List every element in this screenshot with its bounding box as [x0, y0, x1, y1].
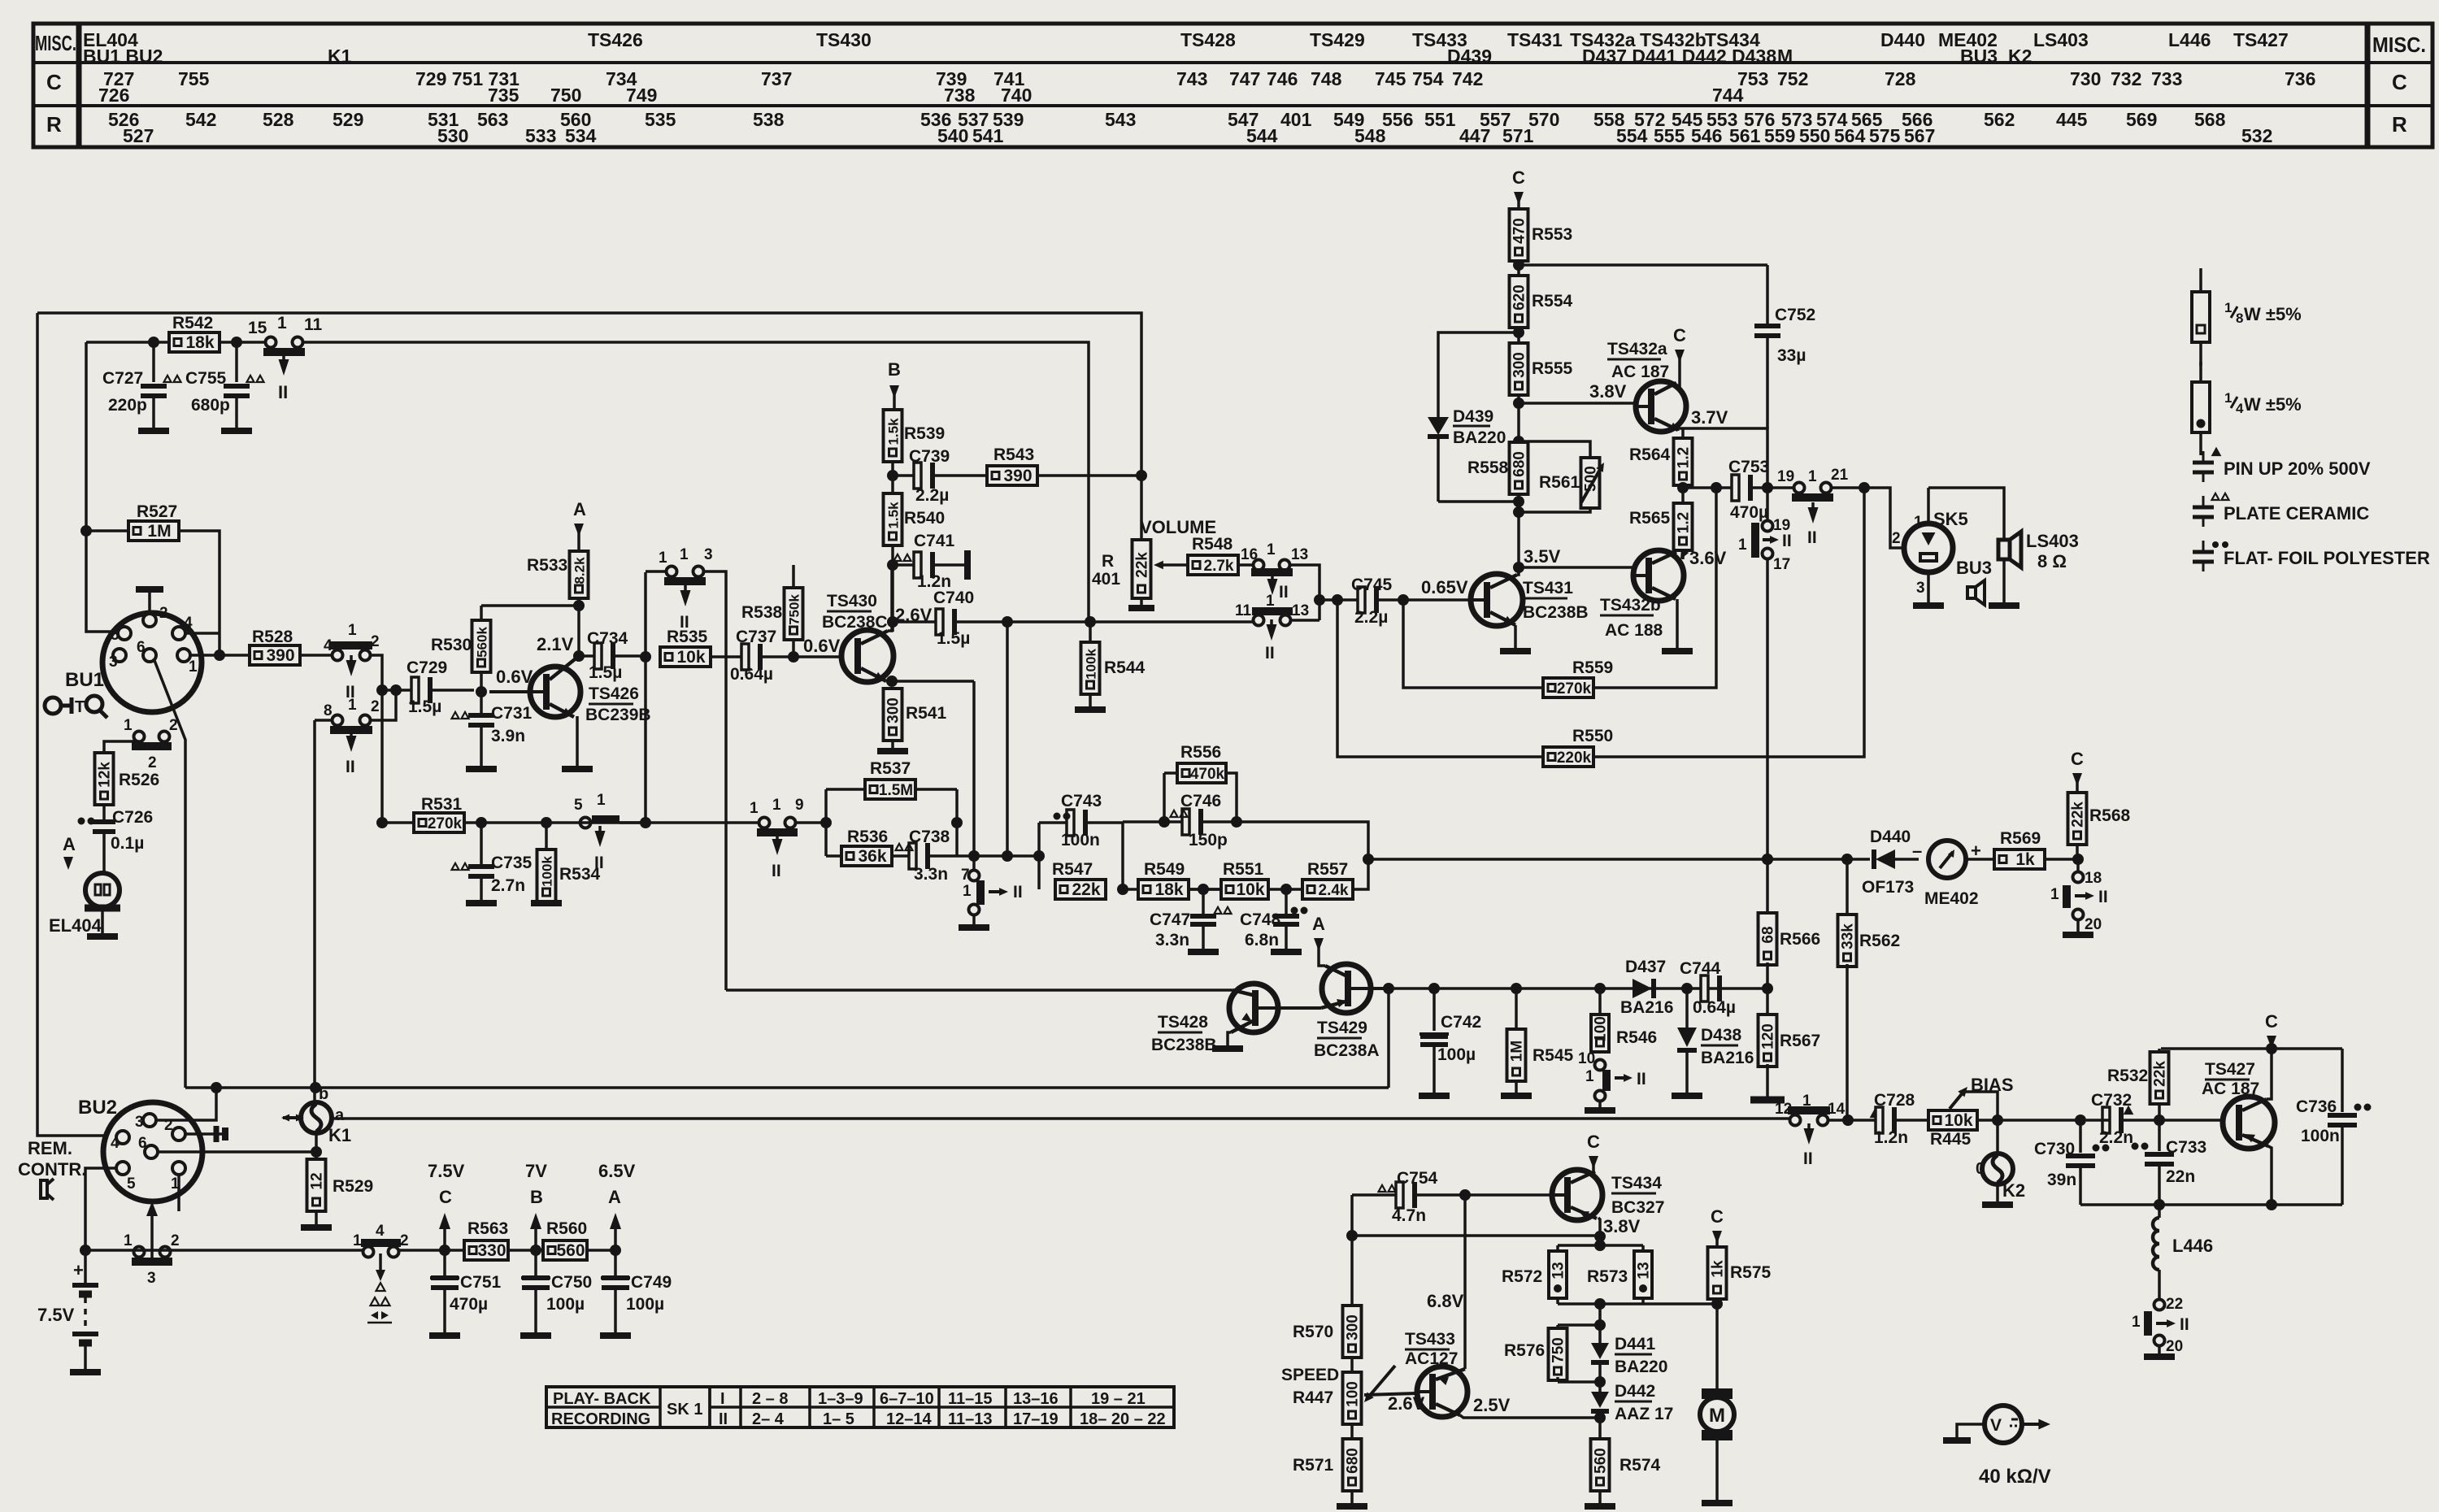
svg-text:R532: R532	[2107, 1067, 2148, 1085]
svg-text:0.1µ: 0.1µ	[111, 834, 144, 853]
capacitor C743 100n loop	[1039, 821, 1068, 824]
diode D439 BA220	[1428, 417, 1449, 435]
svg-text:T: T	[75, 698, 85, 716]
svg-text:527: 527	[123, 125, 154, 146]
svg-text:R573: R573	[1587, 1267, 1628, 1286]
switch 10-1-6 vertical II	[1595, 1060, 1606, 1071]
wire y1057 D440 branch	[1841, 854, 1853, 865]
svg-text:18– 20 – 22: 18– 20 – 22	[1080, 1410, 1166, 1428]
svg-text:33k: 33k	[1840, 923, 1857, 949]
svg-text:542: 542	[185, 109, 216, 130]
wire switch to R526	[104, 741, 139, 754]
svg-text:TS426: TS426	[589, 684, 639, 703]
diode D440 OF173	[1847, 858, 1870, 861]
svg-text:20: 20	[2166, 1338, 2183, 1355]
svg-text:470: 470	[1511, 218, 1528, 244]
svg-text:R544: R544	[1104, 658, 1146, 677]
svg-text:556: 556	[1382, 109, 1413, 130]
capacitor C741 1.2n	[893, 563, 915, 567]
svg-text:3.3n: 3.3n	[914, 865, 948, 884]
svg-text:R538: R538	[741, 603, 783, 622]
svg-text:8: 8	[324, 702, 333, 719]
svg-text:3: 3	[704, 546, 713, 563]
svg-text:746: 746	[1267, 68, 1298, 89]
svg-text:300: 300	[1511, 352, 1528, 378]
capacitor C750 100u	[522, 1275, 550, 1280]
svg-text:2.2µ: 2.2µ	[1354, 608, 1388, 627]
svg-text:TS428: TS428	[1180, 29, 1236, 50]
icon plug rem contr	[41, 1180, 47, 1198]
svg-text:564: 564	[1834, 125, 1866, 146]
svg-text:TS434: TS434	[1611, 1174, 1662, 1193]
wire bus y1538 right part with R563 R560	[398, 1249, 464, 1252]
capacitor C753 470u	[1732, 475, 1739, 501]
svg-text:BA220: BA220	[1453, 428, 1506, 447]
svg-text:R564: R564	[1629, 445, 1671, 464]
svg-text:C733: C733	[2166, 1138, 2206, 1157]
svg-text:1.2: 1.2	[1676, 512, 1693, 533]
resistor R532 22k	[2158, 1049, 2161, 1054]
svg-text:C742: C742	[1441, 1013, 1481, 1032]
wire TS429 base to node x1708	[1351, 987, 1389, 990]
svg-text:II: II	[1782, 532, 1792, 550]
svg-text:2.6V: 2.6V	[1388, 1393, 1425, 1414]
resistor R559 270k loop	[1403, 600, 1543, 688]
svg-text:726: 726	[98, 85, 129, 106]
svg-text:1.5k: 1.5k	[886, 502, 902, 529]
svg-text:1–3–9: 1–3–9	[818, 1390, 863, 1408]
svg-text:11: 11	[1235, 602, 1252, 619]
resistor R557 2.4k	[1302, 880, 1353, 899]
svg-text:A: A	[1312, 914, 1325, 934]
svg-text:743: 743	[1176, 68, 1207, 89]
svg-text:R: R	[46, 112, 62, 137]
svg-text:C735: C735	[491, 854, 533, 872]
svg-text:TS428: TS428	[1158, 1013, 1208, 1032]
svg-text:R569: R569	[2000, 829, 2041, 848]
svg-text:1: 1	[963, 883, 972, 900]
capacitor C739 2.2u	[893, 474, 915, 477]
relay K2	[1996, 1120, 1999, 1154]
svg-text:C731: C731	[491, 704, 533, 723]
resistor R548 2.7k	[1188, 555, 1238, 575]
transistor TS432a AC187	[1636, 381, 1686, 432]
resistor R447 100 SPEED	[1343, 1372, 1362, 1424]
svg-text:13: 13	[1292, 602, 1309, 619]
potentiometer R561 500	[1519, 441, 1590, 458]
svg-text:R567: R567	[1780, 1032, 1820, 1050]
svg-text:8: 8	[2236, 311, 2243, 326]
resistor R528 390	[190, 654, 250, 657]
resistor R556 470k loop	[1163, 773, 1166, 822]
svg-text:0.64µ: 0.64µ	[730, 665, 773, 684]
svg-text:K2: K2	[2008, 46, 2032, 67]
wire x1663 down through R570 chain	[1350, 1195, 1354, 1305]
svg-text:R556: R556	[1180, 743, 1221, 762]
svg-text:1: 1	[1914, 514, 1923, 531]
svg-text:620: 620	[1511, 285, 1528, 311]
svg-text:3.8V: 3.8V	[1603, 1216, 1641, 1236]
svg-text:C746: C746	[1180, 792, 1221, 810]
svg-text:2: 2	[371, 698, 380, 715]
resistor R549 18k	[1123, 888, 1139, 891]
svg-text:3: 3	[1916, 580, 1925, 597]
svg-text:738: 738	[944, 85, 976, 106]
wire R533 node to R530 top	[481, 604, 579, 607]
svg-text:BC327: BC327	[1611, 1198, 1664, 1217]
svg-text:2.7n: 2.7n	[491, 876, 525, 895]
svg-text:R554: R554	[1532, 292, 1573, 311]
resistor R574 560	[1598, 1418, 1602, 1439]
svg-text:BU3: BU3	[1960, 46, 1998, 67]
svg-text:B: B	[530, 1187, 543, 1207]
svg-text:561: 561	[1729, 125, 1761, 146]
svg-text:3: 3	[135, 1114, 144, 1131]
svg-text:749: 749	[626, 85, 657, 106]
legend resistor 1/4W	[2199, 362, 2202, 382]
svg-text:13: 13	[1636, 1262, 1653, 1279]
svg-text:C755: C755	[185, 369, 227, 388]
svg-text:13: 13	[1291, 546, 1308, 563]
svg-text:550: 550	[1799, 125, 1830, 146]
svg-text:C737: C737	[736, 628, 776, 646]
svg-text:2.2µ: 2.2µ	[915, 486, 949, 505]
svg-text:3: 3	[109, 654, 118, 671]
capacitor C730 39n	[2075, 1114, 2086, 1126]
svg-text:C736: C736	[2296, 1097, 2337, 1116]
svg-text:1M: 1M	[147, 522, 171, 541]
svg-text:544: 544	[1246, 125, 1278, 146]
wire top bus 2 with R542	[86, 341, 265, 344]
transistor TS426 BC239B	[530, 667, 580, 717]
svg-text:401: 401	[1280, 109, 1312, 130]
svg-text:754: 754	[1412, 68, 1444, 89]
svg-text:447: 447	[1459, 125, 1490, 146]
svg-text:1.2n: 1.2n	[1874, 1128, 1908, 1147]
svg-text:745: 745	[1375, 68, 1406, 89]
svg-text:0.6V: 0.6V	[803, 636, 841, 656]
svg-text:546: 546	[1691, 125, 1722, 146]
resistor R547 22k	[1055, 880, 1106, 899]
svg-text:R561: R561	[1539, 473, 1580, 492]
switch 1-3-2 below BU2 with up arrow	[134, 1247, 145, 1258]
svg-text:C754: C754	[1397, 1169, 1438, 1188]
svg-text:33µ: 33µ	[1777, 346, 1806, 365]
resistor R560 560	[543, 1240, 587, 1260]
svg-text:SPEED: SPEED	[1281, 1366, 1339, 1384]
svg-text:R540: R540	[904, 509, 945, 528]
resistor R526 12k	[95, 753, 114, 805]
svg-text:C: C	[2265, 1011, 2278, 1032]
wire K1 vertical from switch8 down	[313, 720, 316, 1102]
svg-text:2: 2	[159, 605, 168, 622]
symbols play/rec triangles	[376, 1283, 385, 1291]
arrow double at K1	[283, 1116, 302, 1119]
svg-text:R574: R574	[1619, 1456, 1661, 1475]
svg-text:1: 1	[189, 658, 198, 676]
svg-text:TS427: TS427	[2233, 29, 2289, 50]
wire bus y1376 K1 to switch12	[332, 1117, 1794, 1120]
resistor R565 1.2	[1674, 503, 1693, 550]
svg-text:LS403: LS403	[2026, 531, 2079, 551]
terminal BU1 pin2 top	[148, 590, 151, 614]
relay K1	[301, 1102, 332, 1133]
switch 1-1-3 II	[667, 567, 677, 577]
switch 22-1-20 vertical II	[2154, 1300, 2165, 1310]
capacitor C731 3.9n	[476, 686, 487, 697]
svg-text:1: 1	[1585, 1068, 1594, 1085]
svg-text:470µ: 470µ	[1730, 503, 1768, 522]
icon speaker small BU3	[1967, 587, 1976, 598]
switch 4-1-2	[333, 650, 343, 661]
svg-text:6.8V: 6.8V	[1427, 1291, 1464, 1311]
resistor R542 18k	[148, 337, 159, 348]
svg-text:II: II	[278, 382, 288, 402]
svg-text:11–15: 11–15	[948, 1390, 993, 1408]
capacitor C754 4.7n	[1352, 1193, 1399, 1197]
speaker LS403 8ohm	[1998, 540, 2010, 559]
svg-text:6–7–10: 6–7–10	[880, 1390, 934, 1408]
svg-text:D437: D437	[1625, 958, 1666, 976]
svg-text:C749: C749	[631, 1273, 672, 1292]
resistor R571 680	[1343, 1439, 1362, 1491]
svg-text:568: 568	[2194, 109, 2226, 130]
svg-text:D437 D441 D442 D438: D437 D441 D442 D438	[1582, 46, 1776, 67]
svg-text:1: 1	[277, 314, 287, 332]
wire base to TS427	[2164, 1119, 2223, 1122]
resistor R554 620	[1510, 276, 1528, 328]
capacitor C744 0.64u	[1701, 975, 1708, 1001]
svg-text:535: 535	[645, 109, 676, 130]
svg-text:R565: R565	[1629, 509, 1671, 528]
capacitor C752 33u	[1766, 265, 1769, 324]
svg-text:1: 1	[348, 697, 357, 714]
svg-text:D438: D438	[1701, 1026, 1742, 1045]
svg-text:470k: 470k	[1190, 766, 1225, 783]
capacitor C749 100u	[602, 1275, 629, 1280]
svg-text:13–16: 13–16	[1013, 1390, 1059, 1408]
wire switch8 links	[315, 719, 333, 722]
svg-text:541: 541	[972, 125, 1004, 146]
svg-text:LS403: LS403	[2033, 29, 2089, 50]
svg-text:R560: R560	[546, 1219, 587, 1238]
svg-text:TS432b: TS432b	[1600, 596, 1661, 615]
wire emitter chain x1198	[972, 681, 976, 870]
diode D442 AAZ17	[1591, 1392, 1609, 1408]
switch 18-1-20 vertical II	[2076, 859, 2080, 871]
jack SK5 BU3	[1904, 524, 1953, 572]
svg-text:1: 1	[2224, 390, 2232, 406]
switch 1-1-9 II	[580, 821, 759, 824]
loop bottom R572 R573	[1558, 1302, 1643, 1306]
switch 8-1-2	[333, 715, 343, 726]
svg-text:V: V	[1990, 1416, 2002, 1435]
svg-text:100: 100	[1345, 1381, 1362, 1407]
svg-text:D441: D441	[1615, 1335, 1656, 1353]
svg-text:W ±5%: W ±5%	[2244, 304, 2302, 324]
svg-text:1.5µ: 1.5µ	[937, 629, 970, 648]
svg-text:1: 1	[597, 792, 606, 809]
svg-text:22k: 22k	[2070, 802, 2087, 828]
legend capacitor plate ceramic	[2193, 506, 2214, 510]
svg-text:D440: D440	[1880, 29, 1925, 50]
svg-text:R548: R548	[1192, 535, 1233, 554]
svg-text:470µ: 470µ	[450, 1295, 488, 1314]
svg-text:1.5M: 1.5M	[879, 782, 913, 799]
svg-text:737: 737	[761, 68, 792, 89]
wire R553 node to C752	[1519, 263, 1767, 267]
svg-text:538: 538	[753, 109, 785, 130]
svg-text:II: II	[346, 758, 355, 776]
resistor R544 100k	[1089, 622, 1092, 642]
svg-text:AC127: AC127	[1405, 1349, 1458, 1368]
svg-text:C: C	[1512, 167, 1525, 188]
svg-text:II: II	[1803, 1149, 1813, 1168]
wire x1802 down to TS433 collector	[1463, 1195, 1467, 1369]
resistor R543 390	[987, 466, 1037, 485]
resistor R531 270k	[376, 817, 388, 828]
svg-text:22k: 22k	[2152, 1061, 2169, 1087]
svg-text:a: a	[335, 1106, 345, 1124]
svg-text:1: 1	[353, 1232, 362, 1249]
svg-text:C729: C729	[406, 658, 447, 677]
svg-text:0: 0	[1976, 1160, 1985, 1178]
svg-text:K1: K1	[328, 1125, 351, 1145]
svg-text:569: 569	[2126, 109, 2157, 130]
svg-text:R536: R536	[847, 828, 888, 846]
resistor R576 750 loop	[1558, 1323, 1600, 1327]
svg-text:1: 1	[2132, 1314, 2141, 1331]
svg-text:1: 1	[124, 1232, 133, 1249]
wire bus y1338	[185, 1086, 1389, 1089]
svg-text:R542: R542	[172, 314, 213, 332]
resistor R536 36k loop bottom	[826, 854, 842, 858]
svg-text:1: 1	[659, 550, 667, 567]
svg-text:529: 529	[333, 109, 363, 130]
resistor R569 1k	[1994, 849, 2045, 869]
svg-text:390: 390	[1003, 467, 1032, 485]
svg-text:II: II	[1279, 583, 1289, 602]
svg-text:4: 4	[324, 637, 333, 654]
wire y600 C753 to switch 19-1-21	[1683, 486, 1733, 489]
svg-text:18k: 18k	[1154, 880, 1183, 899]
potentiometer R401 22k VOLUME	[1140, 476, 1143, 541]
svg-text:747: 747	[1229, 68, 1260, 89]
svg-text:TS429: TS429	[1317, 1019, 1367, 1037]
resistor R533 8.2k	[570, 551, 589, 598]
legend resistor 1/8W	[2199, 268, 2202, 292]
svg-text:R576: R576	[1504, 1341, 1545, 1360]
svg-text:BA216: BA216	[1620, 998, 1673, 1017]
wire BU2 pin1 down	[177, 1175, 180, 1211]
svg-text:SK 1: SK 1	[667, 1401, 702, 1419]
svg-text:17: 17	[1773, 556, 1790, 573]
wire BU2 pin3 up to bus	[156, 1088, 216, 1120]
svg-text:II: II	[1637, 1070, 1646, 1088]
capacitor C740 1.5u	[893, 620, 937, 623]
svg-text:C738: C738	[909, 828, 950, 846]
wire y1216 to D437 C744	[1389, 987, 1767, 990]
svg-text:R558: R558	[1467, 458, 1509, 477]
wire y1053 to filter	[957, 854, 1039, 858]
svg-text:4: 4	[376, 1223, 385, 1240]
wire emitter bottom y1482	[2080, 1203, 2342, 1206]
svg-text:270k: 270k	[428, 815, 463, 832]
svg-text:560k: 560k	[475, 627, 490, 658]
svg-text:562: 562	[1984, 109, 2015, 130]
svg-text:3.3n: 3.3n	[1155, 931, 1189, 949]
svg-text:BA216: BA216	[1701, 1049, 1754, 1067]
diode D438 BA216 to ground	[1681, 983, 1693, 994]
svg-text:BC238C: BC238C	[822, 613, 888, 632]
wire TS431 collector 3.5V	[1513, 562, 1524, 573]
svg-text:C745: C745	[1351, 576, 1393, 594]
capacitor C746 150p	[1123, 820, 1164, 823]
svg-text:732: 732	[2111, 68, 2141, 89]
wire 3.8V emitter line y1520	[1352, 1234, 1600, 1237]
svg-text:AAZ 17: AAZ 17	[1615, 1405, 1673, 1423]
svg-text:II: II	[1013, 883, 1023, 902]
svg-text:M: M	[1709, 1405, 1725, 1427]
svg-text:L446: L446	[2172, 1236, 2213, 1256]
svg-text:R571: R571	[1293, 1456, 1334, 1475]
svg-text:R559: R559	[1572, 658, 1613, 677]
svg-text:R570: R570	[1293, 1323, 1333, 1341]
capacitor C738 3.3n	[891, 854, 912, 858]
wire TS432a emitter to C752	[1678, 428, 1767, 488]
svg-text:1.5µ: 1.5µ	[589, 663, 622, 682]
svg-text:19 – 21: 19 – 21	[1091, 1390, 1146, 1408]
svg-text:BA220: BA220	[1615, 1358, 1667, 1376]
svg-text:10k: 10k	[1236, 880, 1264, 899]
resistor R562 33k	[1846, 859, 1849, 917]
svg-text:1: 1	[2050, 886, 2059, 903]
svg-text:R575: R575	[1730, 1263, 1772, 1282]
wire bottom bus y1538	[85, 1249, 368, 1252]
svg-text:533: 533	[525, 125, 556, 146]
svg-text:9: 9	[795, 797, 804, 814]
capacitor C729 1.5u	[382, 689, 417, 692]
svg-text:R550: R550	[1572, 727, 1613, 745]
svg-text:TS432a: TS432a	[1607, 340, 1667, 358]
svg-text:8 Ω: 8 Ω	[2037, 551, 2067, 571]
svg-text:2.2n: 2.2n	[2099, 1128, 2133, 1147]
capacitor C728 1.2n	[1848, 1119, 1878, 1122]
wire vertical x106 to BU1 pin5	[86, 342, 118, 632]
svg-text:18k: 18k	[185, 333, 214, 352]
svg-text:2– 4: 2– 4	[752, 1410, 785, 1428]
transistor TS427 AC187	[2223, 1097, 2275, 1149]
svg-text:534: 534	[565, 125, 597, 146]
svg-text:270k: 270k	[1557, 680, 1592, 697]
svg-text:R547: R547	[1052, 860, 1093, 879]
svg-text:BU1: BU1	[65, 669, 104, 691]
svg-text:MISC.: MISC.	[35, 31, 76, 55]
capacitor C751 470u	[431, 1275, 459, 1280]
resistor R527 1M	[86, 529, 129, 532]
resistor R530 560k	[472, 620, 491, 672]
wiper arrow R401 to R548	[1158, 563, 1189, 567]
resistor R529 12	[307, 1159, 326, 1211]
svg-text:M: M	[1777, 46, 1793, 67]
resistor R555 300	[1510, 343, 1528, 395]
svg-text:17–19: 17–19	[1013, 1410, 1059, 1428]
wire to SK5 and BU3	[1859, 488, 1903, 548]
svg-text:0.64µ: 0.64µ	[1693, 998, 1736, 1017]
svg-text:7.5V: 7.5V	[428, 1161, 465, 1181]
svg-text:R545: R545	[1533, 1046, 1574, 1065]
svg-text:100µ: 100µ	[546, 1295, 585, 1314]
